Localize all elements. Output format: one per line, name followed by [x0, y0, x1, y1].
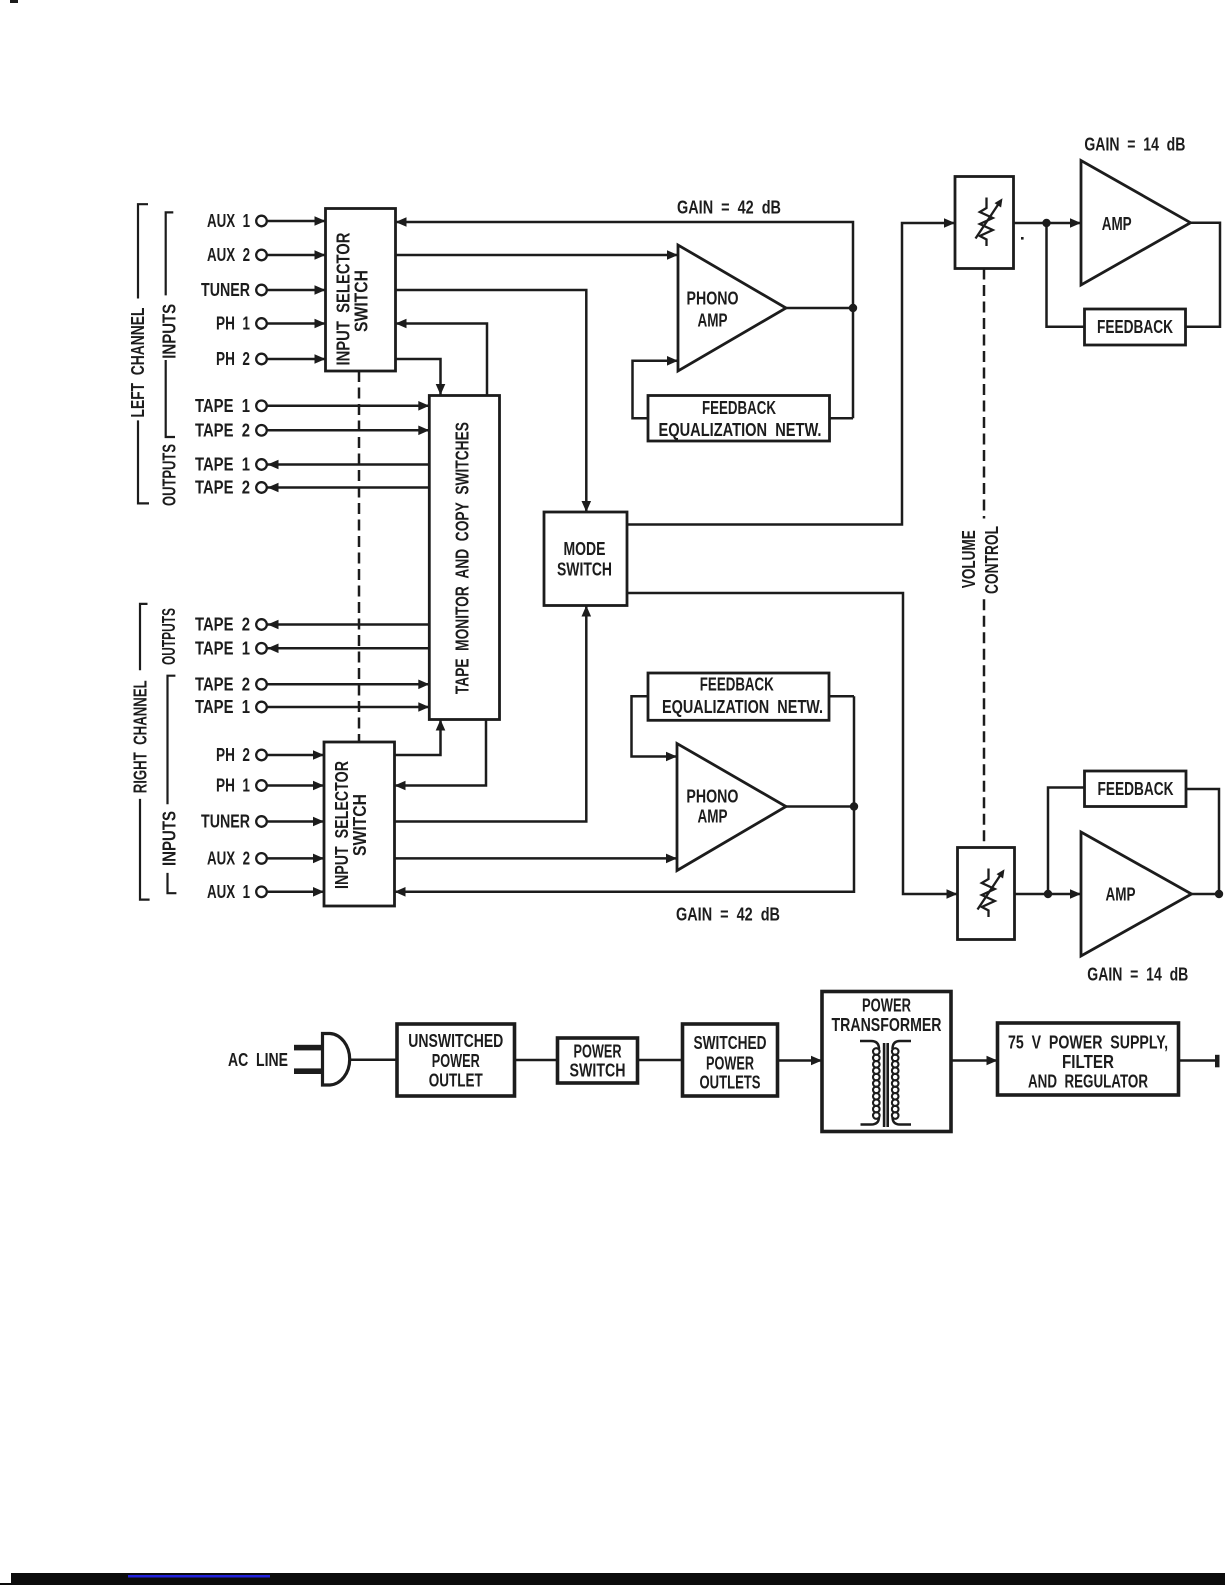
svg-text:GAIN = 42 dB: GAIN = 42 dB	[676, 905, 780, 925]
svg-text:AMP: AMP	[698, 807, 728, 827]
svg-text:SWITCH: SWITCH	[350, 794, 370, 856]
svg-text:AUX 2: AUX 2	[207, 245, 250, 265]
svg-text:SWITCH: SWITCH	[570, 1061, 626, 1081]
svg-text:75 V POWER SUPPLY,: 75 V POWER SUPPLY,	[1008, 1033, 1168, 1053]
svg-text:TAPE 1: TAPE 1	[195, 455, 250, 475]
svg-text:PH 2: PH 2	[216, 349, 250, 369]
svg-text:TAPE 2: TAPE 2	[195, 420, 250, 440]
svg-text:AUX 1: AUX 1	[207, 211, 250, 231]
svg-text:LEFT CHANNEL: LEFT CHANNEL	[128, 308, 148, 418]
svg-text:AMP: AMP	[1106, 884, 1136, 904]
svg-text:GAIN = 14 dB: GAIN = 14 dB	[1084, 135, 1185, 155]
svg-text:AUX 2: AUX 2	[207, 848, 250, 868]
svg-text:FEEDBACK: FEEDBACK	[700, 675, 774, 695]
svg-text:MODE: MODE	[564, 539, 606, 559]
svg-text:SWITCH: SWITCH	[352, 270, 372, 332]
svg-text:TRANSFORMER: TRANSFORMER	[832, 1015, 942, 1035]
svg-text:OUTLETS: OUTLETS	[700, 1072, 761, 1092]
svg-text:POWER: POWER	[432, 1051, 480, 1071]
svg-text:PH 1: PH 1	[216, 314, 250, 334]
svg-text:OUTPUTS: OUTPUTS	[159, 608, 179, 665]
svg-text:TAPE 2: TAPE 2	[195, 478, 250, 498]
svg-text:INPUTS: INPUTS	[160, 811, 180, 866]
svg-text:OUTLET: OUTLET	[429, 1071, 483, 1091]
svg-text:TAPE 1: TAPE 1	[195, 697, 250, 717]
svg-text:FEEDBACK: FEEDBACK	[1097, 317, 1173, 337]
svg-text:SWITCH: SWITCH	[557, 559, 612, 579]
svg-text:FILTER: FILTER	[1062, 1052, 1114, 1072]
svg-text:CONTROL: CONTROL	[982, 526, 1002, 594]
svg-text:INPUTS: INPUTS	[159, 304, 179, 359]
svg-text:FEEDBACK: FEEDBACK	[1098, 779, 1174, 799]
svg-text:GAIN = 42 dB: GAIN = 42 dB	[677, 198, 781, 218]
svg-text:UNSWITCHED: UNSWITCHED	[408, 1031, 503, 1051]
svg-text:EQUALIZATION NETW.: EQUALIZATION NETW.	[662, 697, 823, 717]
svg-text:AMP: AMP	[698, 311, 728, 331]
svg-text:TUNER: TUNER	[201, 280, 250, 300]
svg-text:POWER: POWER	[706, 1053, 754, 1073]
svg-text:TAPE 1: TAPE 1	[195, 638, 250, 658]
svg-text:PH 1: PH 1	[216, 776, 250, 796]
svg-text:EQUALIZATION NETW.: EQUALIZATION NETW.	[659, 420, 822, 440]
svg-text:FEEDBACK: FEEDBACK	[702, 398, 776, 418]
svg-text:PH 2: PH 2	[216, 745, 250, 765]
svg-text:RIGHT CHANNEL: RIGHT CHANNEL	[131, 680, 151, 793]
svg-text:TUNER: TUNER	[201, 812, 250, 832]
svg-text:SWITCHED: SWITCHED	[694, 1033, 767, 1053]
svg-text:TAPE 2: TAPE 2	[195, 674, 250, 694]
svg-text:POWER: POWER	[574, 1041, 622, 1061]
svg-text:VOLUME: VOLUME	[959, 530, 979, 588]
svg-text:INPUT SELECTOR: INPUT SELECTOR	[332, 761, 352, 889]
svg-text:PHONO: PHONO	[687, 288, 739, 308]
svg-text:TAPE MONITOR AND COPY SWIT: TAPE MONITOR AND COPY SWITCHES	[452, 422, 472, 694]
svg-text:AND REGULATOR: AND REGULATOR	[1028, 1071, 1148, 1091]
svg-text:OUTPUTS: OUTPUTS	[160, 444, 180, 506]
svg-text:TAPE 1: TAPE 1	[195, 396, 250, 416]
svg-text:POWER: POWER	[862, 995, 911, 1015]
svg-text:PHONO: PHONO	[686, 786, 738, 806]
svg-text:AC LINE: AC LINE	[228, 1050, 288, 1070]
svg-text:TAPE 2: TAPE 2	[195, 615, 250, 635]
svg-text:GAIN = 14 dB: GAIN = 14 dB	[1087, 965, 1188, 985]
svg-text:INPUT SELECTOR: INPUT SELECTOR	[334, 233, 354, 366]
svg-text:AMP: AMP	[1102, 214, 1132, 234]
svg-text:AUX 1: AUX 1	[207, 882, 250, 902]
